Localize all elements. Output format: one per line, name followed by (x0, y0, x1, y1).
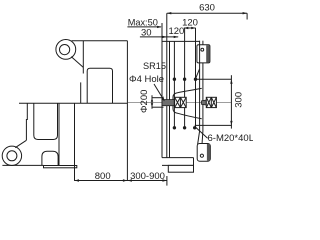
bolt dot A1 (173, 78, 176, 81)
svg-text:Φ200: Φ200 (139, 90, 150, 113)
stationary platen right face wire (202, 41, 204, 131)
sensor block (197, 45, 210, 63)
svg-text:120: 120 (168, 26, 184, 37)
screw head right (206, 97, 216, 107)
tail diagonal 1 wire (198, 131, 200, 145)
svg-text:630: 630 (199, 2, 215, 13)
clamp top edge wire (162, 40, 200, 42)
30 leader underline (140, 36, 178, 38)
injection unit pivot circle inner (60, 45, 70, 55)
moving platen right face wire (169, 41, 171, 157)
screw head left (175, 97, 187, 107)
piston rod vertical wire (82, 41, 84, 74)
bolt dot B3 (193, 126, 196, 129)
tail diagonal 2 wire (201, 131, 204, 145)
dimension 300-900 line (127, 180, 166, 182)
svg-text:Φ4 Hole: Φ4 Hole (129, 74, 164, 85)
clamp base lower box (168, 165, 193, 172)
machine base top edge wire (19, 102, 127, 104)
clamp base slab bottom wire (162, 164, 194, 166)
svg-text:Max:50: Max:50 (128, 18, 158, 28)
svg-text:SR15: SR15 (143, 61, 166, 71)
bolt dot B2 (183, 126, 186, 129)
dimension phi200 line (151, 95, 153, 109)
Max:50 leader underline (127, 26, 161, 28)
svg-text:300-900: 300-900 (130, 171, 165, 182)
clamp base slab right wire (193, 158, 195, 166)
dimension 300-900 right extension wire (166, 176, 168, 186)
phi4 hole leader wire (154, 84, 164, 101)
tie line 1 wire (173, 41, 175, 127)
barrel housing (87, 68, 112, 103)
moving platen left face wire (161, 23, 163, 158)
base left step wire (25, 103, 28, 140)
dimension 630 right extension wire (246, 13, 248, 19)
base lug circle inner (7, 151, 17, 161)
clamp base slab top wire (162, 157, 194, 159)
barrel rod wire (80, 82, 82, 103)
dot leader diagonal wire (195, 69, 199, 79)
svg-text:300: 300 (233, 92, 244, 108)
base bottom edge wire (2, 164, 43, 166)
injection unit pivot circle outer (56, 40, 76, 60)
dimension 120 upper line (184, 27, 196, 29)
dimension 300 bottom connector wire (195, 124, 232, 126)
base lug circle outer (2, 146, 21, 165)
bolt dot B1 (173, 126, 176, 129)
moving platen mid face wire (166, 13, 168, 157)
stationary platen left face wire (199, 41, 201, 131)
base pocket (34, 103, 58, 139)
pedestal bar (44, 166, 77, 168)
dimension 800 line (75, 180, 128, 182)
column right wire (74, 103, 76, 181)
column left wire (58, 103, 60, 165)
screw shank right (202, 100, 207, 105)
svg-text:30: 30 (141, 28, 152, 39)
tail foot dark bar (207, 144, 210, 161)
svg-text:120: 120 (182, 18, 198, 29)
6-M20*40L leader wire (195, 126, 208, 138)
pivot tangent wire (71, 57, 83, 68)
platen line over sensor wire (199, 45, 201, 63)
dimension 630 line (167, 12, 247, 14)
bolt dot A3 (194, 78, 197, 81)
bolt dot A2 (183, 78, 186, 81)
centerline (128, 102, 232, 104)
svg-text:6-M20*40L: 6-M20*40L (208, 133, 254, 144)
tie line 2 wire (184, 28, 186, 128)
machine body right edge wire (126, 41, 128, 181)
tail foot (197, 144, 210, 162)
lug diagonal wire (15, 140, 26, 147)
sensor dark bar (206, 45, 209, 62)
tie line 3 wire (195, 28, 197, 128)
svg-text:800: 800 (95, 171, 111, 182)
nozzle tip (162, 100, 174, 106)
sensor screw circle (201, 48, 204, 51)
dimension 300 line (230, 75, 232, 128)
nozzle bell (173, 88, 202, 118)
tail foot screw circle (200, 154, 203, 157)
foot bump (42, 151, 58, 165)
dimension 300 top connector wire (197, 78, 232, 80)
injection unit top edge wire (72, 40, 128, 42)
